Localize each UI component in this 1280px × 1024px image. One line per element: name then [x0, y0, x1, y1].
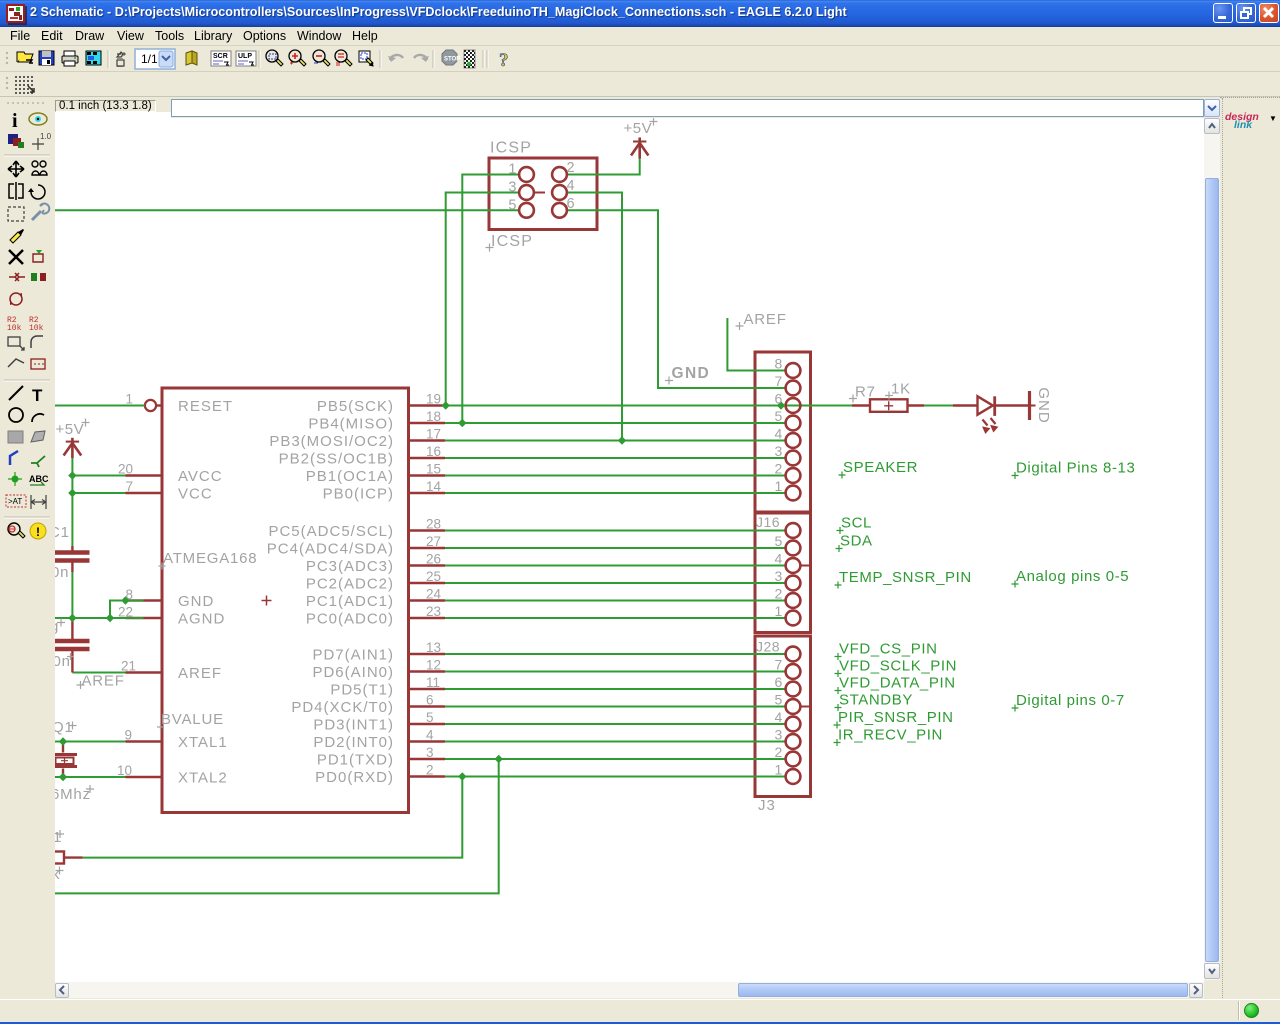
J-top pin circle 1 [786, 486, 801, 501]
J1 pin circle 6 [786, 523, 801, 538]
IC right pin 24 stub [409, 599, 446, 601]
IC right pin 16 stub [409, 457, 446, 459]
J2 pin circle 6 [786, 682, 801, 697]
schematic canvas [55, 118, 1204, 982]
wire +5V vertical to C1 [71, 458, 73, 546]
svg-text:ATMEGA168: ATMEGA168 [163, 550, 257, 567]
junction PB3-ICSP4 [618, 436, 626, 444]
svg-text:7: 7 [775, 373, 783, 389]
row12: split / invoke [8, 359, 24, 367]
J1 pin circle 2 [786, 593, 801, 608]
svg-text:11: 11 [426, 675, 440, 690]
zoom icons x5 [266, 50, 373, 66]
IC left pin 10 stub [126, 776, 163, 778]
wire ICSP pin3 to PB5 net [446, 193, 520, 406]
svg-text:0n: 0n [55, 564, 69, 581]
svg-text:1.0: 1.0 [40, 132, 52, 141]
svg-text:ICSP: ICSP [491, 233, 533, 250]
svg-text:GND: GND [1035, 387, 1052, 423]
svg-text:SPEAKER: SPEAKER [843, 459, 918, 476]
undo redo [390, 55, 403, 60]
svg-text:12: 12 [426, 658, 441, 673]
gate/board icon [117, 52, 122, 57]
junction PB5-ICSP3 [442, 401, 450, 409]
LED1 emission arrows [983, 420, 988, 426]
svg-text:1: 1 [775, 478, 783, 494]
sep double [482, 50, 484, 68]
wire PC0 net to J1 [445, 617, 786, 619]
wire AGND row [55, 617, 144, 619]
separator [4, 154, 50, 156]
IC right pin 4 stub [409, 740, 446, 742]
svg-text:3: 3 [775, 443, 783, 459]
svg-text:1: 1 [125, 392, 133, 407]
connector pin bottom-left [51, 852, 64, 864]
svg-text:SCL: SCL [841, 515, 872, 532]
IC right pin 13 stub [409, 653, 446, 655]
svg-text:?: ? [499, 50, 509, 71]
wire GND pin8 branch [110, 601, 144, 619]
right panel with design link logo [1220, 97, 1280, 999]
svg-text:PC3(ADC3): PC3(ADC3) [306, 558, 394, 575]
J2 pin circle 8 [786, 647, 801, 662]
ICSP header box [489, 158, 597, 230]
svg-text:PB2(SS/OC1B): PB2(SS/OC1B) [279, 451, 394, 468]
svg-text:7: 7 [775, 657, 783, 673]
IC left pin 8 stub [126, 599, 163, 601]
IC right pin 6 stub [409, 705, 446, 707]
checker icon [464, 50, 475, 68]
ICSP pin 6 circle [552, 203, 567, 218]
svg-text:17: 17 [426, 427, 441, 442]
J2 pin circle 4 [786, 717, 801, 732]
horizontal scrollbar [55, 982, 1204, 998]
pin 1 RESET stub with bubble [156, 404, 162, 406]
svg-text:i: i [12, 110, 18, 132]
svg-text:1: 1 [775, 762, 783, 778]
J1 pin circle 5 [786, 541, 801, 556]
svg-text:5: 5 [775, 692, 783, 708]
svg-text:6: 6 [426, 693, 434, 708]
top grip dots [7, 102, 44, 104]
wire ICSP pin4 down to PB3 net [567, 193, 622, 441]
svg-text:PC1(ADC1): PC1(ADC1) [306, 593, 394, 610]
separator [4, 516, 50, 518]
svg-text:20: 20 [118, 462, 133, 477]
IC left pin 7 stub [126, 492, 163, 494]
row2: display / mark [8, 134, 18, 144]
J2 pin 5 marker [800, 706, 811, 708]
svg-text:19: 19 [426, 392, 441, 407]
coordinate row [0, 97, 1280, 118]
wire C1 to AGND row [71, 572, 73, 618]
svg-text:XTAL2: XTAL2 [178, 770, 228, 787]
wire PC2 net to J1 [445, 582, 786, 584]
wire PC1 net to J1 [445, 600, 786, 602]
svg-text:PD3(INT1): PD3(INT1) [313, 717, 394, 734]
svg-text:13: 13 [426, 640, 441, 655]
J1 pin circle 1 [786, 611, 801, 626]
svg-text:PD2(INT0): PD2(INT0) [313, 734, 394, 751]
connector J-top box [755, 352, 811, 512]
svg-text:VCC: VCC [178, 486, 213, 503]
svg-text:3: 3 [426, 745, 434, 760]
IC left pin 21 stub [126, 671, 163, 673]
svg-text:1: 1 [508, 162, 516, 178]
svg-text:21: 21 [121, 659, 136, 674]
+5V supply symbol near ICSP [638, 138, 641, 159]
IC right pin 14 stub [409, 492, 446, 494]
svg-text:VFD_CS_PIN: VFD_CS_PIN [839, 641, 938, 658]
row3: move / copy [8, 161, 24, 177]
svg-text:1/1: 1/1 [141, 52, 158, 66]
wire PB1 net pin15 to J-top pin2 [445, 475, 786, 477]
svg-text:+5V: +5V [56, 421, 85, 438]
svg-text:GND: GND [672, 365, 711, 382]
library books [186, 51, 192, 65]
status bar [0, 999, 1280, 1022]
wire AREF pin21 row [72, 672, 125, 674]
LED1 diode [953, 404, 978, 406]
svg-text:2: 2 [775, 586, 783, 602]
svg-text:PD6(AIN0): PD6(AIN0) [312, 664, 394, 681]
svg-text:23: 23 [426, 604, 441, 619]
svg-text:STANDBY: STANDBY [839, 692, 913, 709]
svg-text:PB1(OC1A): PB1(OC1A) [306, 468, 394, 485]
+5V supply symbol left [71, 438, 74, 458]
svg-text:AREF: AREF [178, 665, 222, 682]
row5: group / change [8, 207, 24, 221]
svg-text:28: 28 [426, 517, 441, 532]
svg-text:6: 6 [775, 391, 783, 407]
svg-text:PB4(MISO): PB4(MISO) [308, 416, 394, 433]
svg-text:PC0(ADC0): PC0(ADC0) [306, 611, 394, 628]
J-top pin circle 7 [786, 381, 801, 396]
row6: paste/brush [10, 232, 21, 243]
svg-text:4: 4 [775, 709, 783, 725]
svg-text:1: 1 [775, 603, 783, 619]
IC left pin 22 stub [126, 617, 163, 619]
resistor R7 [852, 404, 870, 406]
J-top pin circle 4 [786, 433, 801, 448]
row9: gateswap [10, 293, 22, 305]
row18: attribute / dimension [6, 495, 26, 507]
svg-text:16: 16 [426, 444, 441, 459]
junction PD1 TXD [495, 755, 503, 763]
J-top pin circle 3 [786, 451, 801, 466]
connector J1 box [755, 513, 811, 633]
IC left pin 9 stub [126, 740, 163, 742]
ICSP pin 2 circle [552, 167, 567, 182]
menu bar [0, 27, 1280, 46]
svg-text:2: 2 [775, 461, 783, 477]
svg-text:Analog pins 0-5: Analog pins 0-5 [1016, 568, 1129, 585]
J1 pin circle 3 [786, 576, 801, 591]
svg-text:Digital Pins 8-13: Digital Pins 8-13 [1016, 460, 1135, 477]
row7: delete / (swap) [9, 250, 23, 264]
svg-text:VFD_DATA_PIN: VFD_DATA_PIN [839, 675, 956, 692]
svg-text:10: 10 [117, 763, 132, 778]
wire RESET long net [55, 209, 519, 211]
svg-text:J16: J16 [756, 514, 780, 530]
junction AVCC [68, 471, 76, 479]
IC right pin 26 stub [409, 564, 446, 566]
row15: rect / polygon [8, 431, 23, 443]
IC right pin 18 stub [409, 422, 446, 424]
svg-text:AVCC: AVCC [178, 468, 223, 485]
ICSP pin 3 circle [519, 185, 534, 200]
J-top pin circle 2 [786, 468, 801, 483]
J1 pin 4 marker [800, 565, 811, 567]
svg-text:TEMP_SNSR_PIN: TEMP_SNSR_PIN [839, 569, 972, 586]
IC right pin 23 stub [409, 617, 446, 619]
J1 pin circle 4 [786, 558, 801, 573]
J2 pin circle 7 [786, 664, 801, 679]
wire PD6 net to J2 [445, 671, 786, 673]
wire PB2 net pin16 to J-top pin3 [445, 457, 786, 459]
svg-text:7: 7 [125, 479, 133, 494]
svg-text:SDA: SDA [840, 533, 873, 550]
svg-text:22: 22 [118, 605, 133, 620]
capacitor C2 [71, 621, 73, 639]
junction AGND mid [106, 614, 114, 622]
ATMEGA168 IC1 box [162, 388, 409, 813]
J-top pin circle 6 [786, 398, 801, 413]
svg-text:IR_RECV_PIN: IR_RECV_PIN [838, 727, 943, 744]
svg-text:>AT: >AT [8, 497, 22, 506]
wire RXD branch down-left [83, 777, 463, 858]
svg-text:J3: J3 [758, 797, 776, 814]
separator [4, 379, 50, 381]
svg-text:PC5(ADC5/SCL): PC5(ADC5/SCL) [268, 523, 394, 540]
svg-text:4: 4 [775, 426, 783, 442]
svg-text:PC4(ADC4/SDA): PC4(ADC4/SDA) [267, 541, 394, 558]
left command toolbar [0, 97, 55, 982]
row14: circle / arc [9, 408, 23, 422]
IC right pin 19 stub [409, 404, 446, 406]
wire PB3 net pin17 to J-top pin4 [445, 440, 786, 442]
svg-text:5: 5 [426, 710, 434, 725]
svg-text:PD5(T1): PD5(T1) [330, 682, 394, 699]
svg-text:24: 24 [426, 587, 442, 602]
svg-text:6: 6 [775, 674, 783, 690]
sep [379, 50, 381, 68]
svg-text:6Mhz: 6Mhz [55, 786, 91, 803]
ICSP pin 5 circle [519, 203, 534, 218]
svg-text:PB0(ICP): PB0(ICP) [323, 486, 394, 503]
capacitor C1 [71, 546, 73, 551]
svg-text:PC2(ADC2): PC2(ADC2) [306, 576, 394, 593]
svg-text:ABC: ABC [29, 474, 49, 484]
toolbar row 1 [0, 46, 1280, 72]
row16: bus / net [10, 451, 18, 465]
junction GND pin8 [121, 596, 129, 604]
row4: mirror / rotate [9, 182, 23, 200]
wire XTAL1 row [55, 741, 126, 743]
junction PB4-ICSP1 [458, 419, 466, 427]
junction XTAL1 [59, 737, 67, 745]
svg-text:AGND: AGND [178, 611, 225, 628]
wire ICSP pin6 to GND J pin7 [567, 210, 786, 388]
svg-text:2: 2 [567, 160, 575, 176]
wire PC5 net to J1 [445, 530, 786, 532]
svg-text:Q1: Q1 [55, 719, 74, 736]
row19: erc / errors [8, 523, 20, 535]
J-top pin circle 8 [786, 363, 801, 378]
svg-text:SCR: SCR [213, 53, 228, 60]
J-top pin circle 5 [786, 416, 801, 431]
wire PD2 net to J2 [445, 741, 786, 743]
J2 pin circle 3 [786, 734, 801, 749]
row8: pinswap / replace [9, 273, 25, 281]
wire PD7 net to J2 [445, 653, 786, 655]
svg-text:4: 4 [426, 728, 434, 743]
wire RESET pin to left edge [55, 405, 145, 407]
row17: junction / label [12, 476, 19, 483]
junction AGND left [68, 614, 76, 622]
wire AVCC row [72, 475, 125, 477]
wire ICSP pin2 to +5V [567, 158, 640, 175]
IC right pin 11 stub [409, 688, 446, 690]
ICSP pin 1 circle [519, 167, 534, 182]
svg-text:PD4(XCK/T0): PD4(XCK/T0) [291, 699, 394, 716]
svg-text:XTAL1: XTAL1 [178, 734, 228, 751]
wire PB4 net pin18 to J-top pin5 [445, 422, 786, 424]
svg-text:1K: 1K [891, 381, 911, 398]
wire PD5 net to J2 [445, 688, 786, 690]
wire TXD branch down-left [55, 759, 499, 893]
svg-text:PB3(MOSI/OC2): PB3(MOSI/OC2) [269, 433, 394, 450]
svg-text:3: 3 [775, 568, 783, 584]
svg-text:10k: 10k [7, 324, 22, 333]
svg-text:3: 3 [775, 727, 783, 743]
svg-text:10k: 10k [29, 324, 44, 333]
svg-text:1: 1 [55, 829, 62, 846]
svg-text:J28: J28 [756, 639, 780, 655]
svg-text:8: 8 [775, 356, 783, 372]
wire R7 to LED [924, 405, 953, 407]
IC right pin 3 stub [409, 758, 446, 760]
IC right pin 15 stub [409, 474, 446, 476]
svg-text:R7: R7 [855, 384, 876, 401]
svg-text:PD7(AIN1): PD7(AIN1) [312, 647, 394, 664]
wire PD3 net to J2 [445, 723, 786, 725]
junction J-top pin6 [777, 401, 785, 409]
print [62, 56, 78, 63]
svg-text:26: 26 [426, 552, 441, 567]
svg-text:6: 6 [567, 196, 575, 212]
svg-text:STOP: STOP [444, 57, 460, 63]
svg-text:25: 25 [426, 569, 441, 584]
wire VCC row [72, 492, 125, 494]
wire AREF to J-top pin8 [727, 318, 785, 371]
svg-text:4: 4 [567, 178, 575, 194]
IC right pin 2 stub [409, 775, 446, 777]
svg-text:5: 5 [775, 408, 783, 424]
stop sign [442, 50, 457, 65]
svg-text:T: T [32, 386, 43, 405]
svg-text:18: 18 [426, 409, 441, 424]
svg-text:GND: GND [178, 593, 214, 610]
cam/export [86, 51, 101, 65]
save [39, 51, 54, 65]
toolbar row 2 (grid icon) [0, 72, 1280, 97]
svg-text:Digital pins 0-7: Digital pins 0-7 [1016, 692, 1125, 709]
wire PD4 net to J2 [445, 706, 786, 708]
SCR icon [211, 51, 231, 66]
junction XTAL2 [59, 773, 67, 781]
IC right pin 27 stub [409, 547, 446, 549]
window title bar [0, 0, 1280, 27]
sep [258, 50, 260, 68]
svg-text:ULP: ULP [238, 53, 252, 60]
svg-text:+5V: +5V [624, 120, 653, 137]
wire PB0 net pin14 to J-top pin1 [445, 492, 786, 494]
open [18, 54, 33, 62]
svg-text:15: 15 [426, 462, 441, 477]
IC right pin 25 stub [409, 582, 446, 584]
IC right pin 12 stub [409, 670, 446, 672]
wire PB5 net pin19 through J-top pin6 to R7 [445, 405, 852, 407]
svg-text:RESET: RESET [178, 398, 233, 415]
junction VCC [68, 489, 76, 497]
wire ICSP pin1 to PB4 net [462, 175, 519, 424]
IC origin cross [262, 596, 272, 606]
wire XTAL2 row [55, 776, 126, 778]
ULP icon [236, 51, 256, 66]
IC left pin 20 stub [126, 474, 163, 476]
row13: wire / text [9, 386, 23, 400]
svg-text:AREF: AREF [82, 673, 125, 690]
svg-text:AREF: AREF [744, 311, 787, 328]
ICSP pin 3 marker [534, 192, 545, 194]
svg-text:5: 5 [508, 197, 516, 213]
svg-text:8: 8 [125, 587, 133, 602]
svg-text:PB5(SCK): PB5(SCK) [317, 398, 394, 415]
junction PD0 RXD [458, 772, 466, 780]
svg-text:2: 2 [775, 744, 783, 760]
svg-text:3: 3 [508, 180, 516, 196]
wire PD1 net to J2 [445, 758, 786, 760]
J2 pin circle 1 [786, 769, 801, 784]
sep [432, 50, 434, 68]
svg-text:BVALUE: BVALUE [161, 711, 224, 728]
svg-text:9: 9 [124, 728, 132, 743]
svg-text:PIR_SNSR_PIN: PIR_SNSR_PIN [838, 709, 954, 726]
svg-text:PD1(TXD): PD1(TXD) [317, 752, 394, 769]
J2 pin circle 5 [786, 699, 801, 714]
row11: smash / miter [8, 337, 20, 346]
svg-text:!: ! [36, 525, 40, 539]
ICSP pin 4 circle [552, 185, 567, 200]
sep [107, 50, 109, 68]
IC right pin 28 stub [409, 529, 446, 531]
svg-text:27: 27 [426, 534, 441, 549]
svg-text:C1: C1 [55, 524, 70, 541]
wire PC3 net to J1 [445, 565, 786, 567]
svg-text:g: g [55, 618, 59, 635]
svg-text:14: 14 [426, 479, 442, 494]
vertical scrollbar [1204, 118, 1220, 980]
svg-text:0n: 0n [55, 653, 71, 670]
GND symbol at LED [1028, 391, 1031, 420]
crystal Q1 [62, 742, 64, 753]
svg-text:2: 2 [426, 763, 434, 778]
IC right pin 17 stub [409, 439, 446, 441]
wire PD0 net to J2 [445, 776, 786, 778]
svg-text:5: 5 [775, 533, 783, 549]
svg-text:ICSP: ICSP [490, 140, 532, 157]
